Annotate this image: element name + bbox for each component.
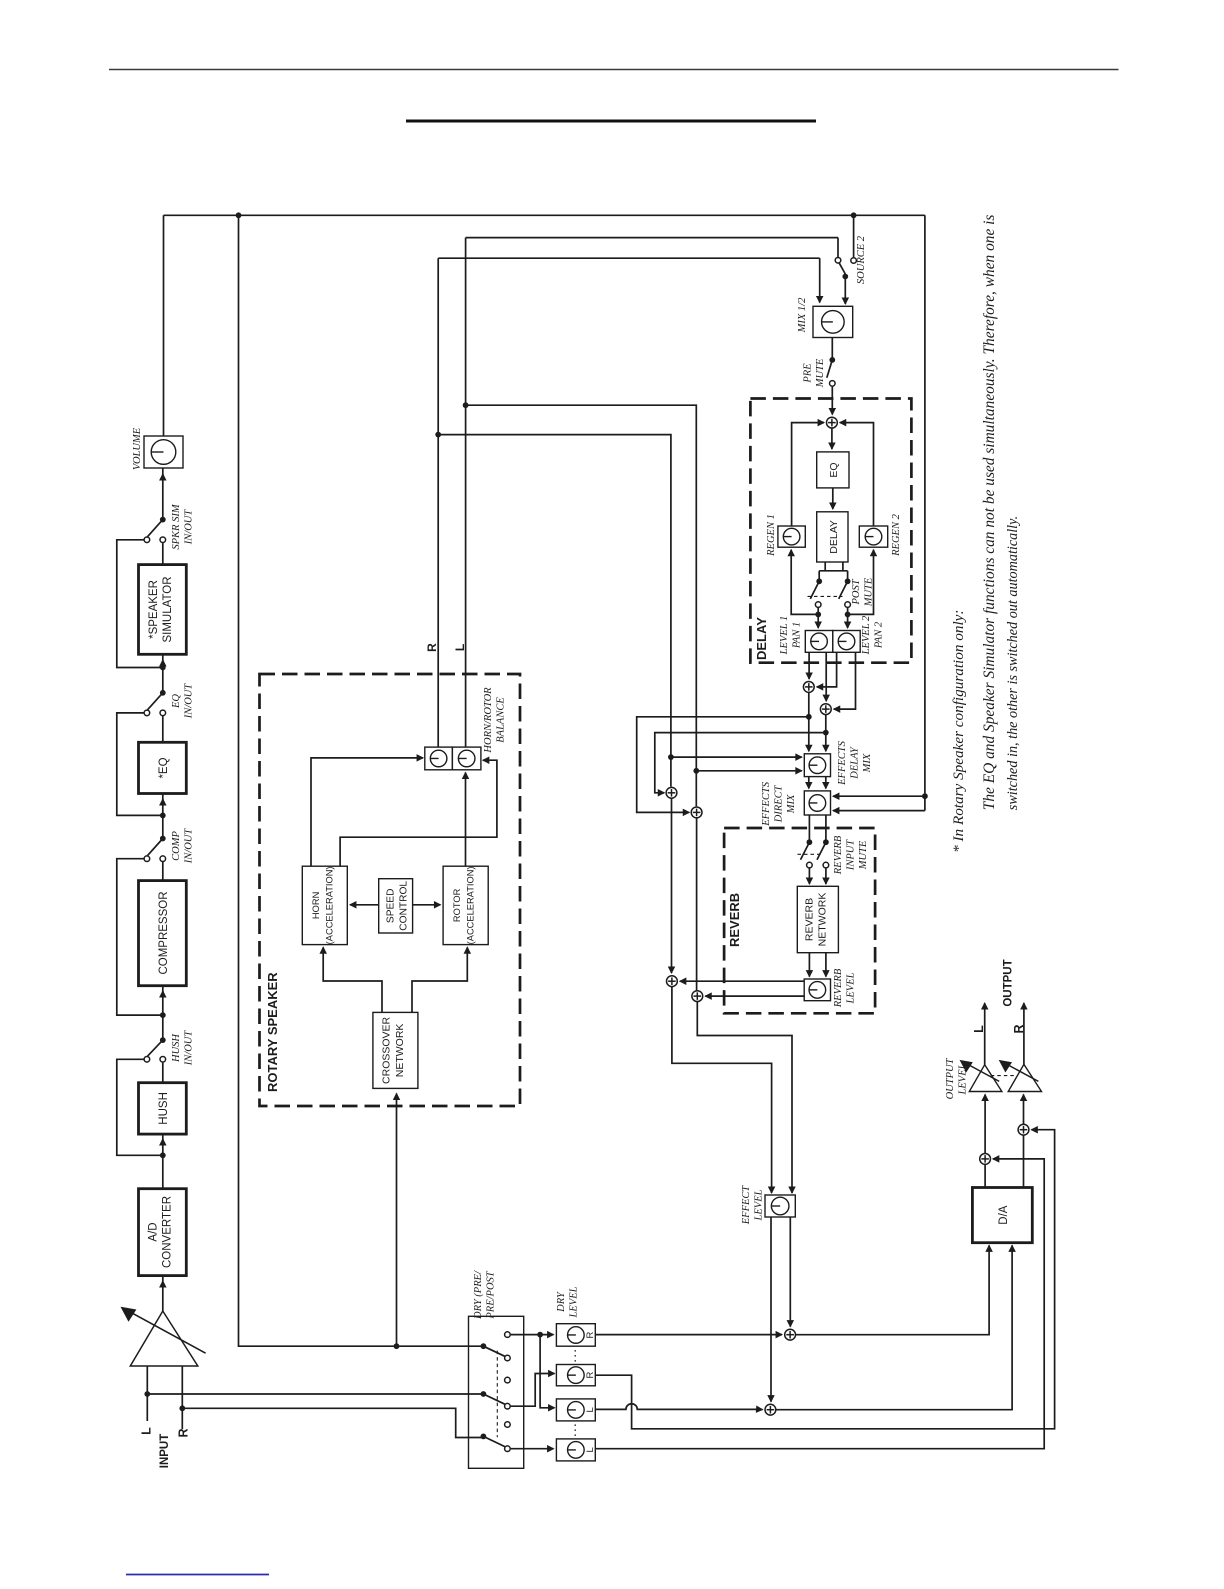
wire R line [466,237,838,239]
node below COMPRESSOR [160,1012,166,1018]
svg-text:EFFECT: EFFECT [741,1185,752,1226]
svg-text:LEVEL: LEVEL [568,1286,579,1318]
svg-text:MUTE: MUTE [815,358,826,388]
VOLUME knob [144,436,183,468]
svg-text:LEVEL 1: LEVEL 1 [779,616,790,656]
svg-text:R: R [585,1331,596,1338]
direct feed wire [924,215,926,810]
svg-text:COMPRESSOR: COMPRESSOR [158,891,170,974]
wire mix link L [808,777,810,789]
wire rotary R into mix [668,754,674,760]
input jack R [181,1366,183,1429]
wire reverb out L [808,953,810,977]
svg-text:MIX: MIX [862,753,873,773]
wire to COMPRESSOR [162,991,164,1015]
svg-text:MUTE: MUTE [858,840,869,870]
wire reverb level to L sum [680,980,804,982]
svg-text:EFFECTS: EFFECTS [761,781,772,826]
wire input R to switch [182,1408,483,1437]
svg-text:VOLUME: VOLUME [132,427,143,470]
svg-text:PRE: PRE [803,363,814,384]
svg-text:The EQ and Speaker Simulator f: The EQ and Speaker Simulator functions c… [981,215,998,811]
svg-text:REVERB: REVERB [727,893,742,947]
wire into reverb network L [808,868,810,884]
svg-text:INPUT: INPUT [159,1434,171,1469]
svg-text:IN/OUT: IN/OUT [183,509,194,546]
gang dots R [574,1350,576,1363]
svg-text:* In Rotary Speaker configura: * In Rotary Speaker configuration only: [950,610,967,853]
svg-text:REVERB: REVERB [833,968,844,1008]
speed to rotor arrow [413,904,441,906]
horn tap wire 1 [311,758,422,866]
svg-text:DELAY: DELAY [828,520,840,554]
HUSH bypass wire [117,1059,163,1155]
wire output R [1023,1003,1025,1064]
wire into MIX [819,258,821,302]
dry R sum node [785,1329,796,1340]
wire output L [984,1003,986,1065]
wire effect level out L [770,1217,772,1402]
input amp [130,1311,198,1366]
node top bus left [236,212,242,218]
delay output yoke [824,562,826,571]
svg-text:R: R [1012,1024,1026,1033]
wire L sum to amp [984,1095,986,1154]
node 3 sum [666,787,677,798]
wire reverb level to R sum [705,995,804,997]
COMP in/out switch [162,862,164,881]
svg-text:PAN 2: PAN 2 [873,621,884,649]
wire delay L to out sum [637,717,809,813]
delay EQ block [817,452,849,488]
rotor tap wire [465,773,467,867]
PRE MUTE switch [831,338,833,360]
svg-text:CONTROL: CONTROL [399,881,410,931]
wire dry R1 to sum [595,1334,782,1336]
svg-text:R: R [177,1428,191,1437]
svg-text:L: L [585,1407,596,1412]
svg-text:DRY (PRE/: DRY (PRE/ [473,1270,484,1320]
crossover to rotor wire [412,948,467,1012]
svg-text:A/D: A/D [148,1222,160,1241]
svg-text:NETWORK: NETWORK [394,1024,406,1078]
svg-text:HUSH: HUSH [171,1033,182,1063]
wire dry L1 to sum with hop [595,1404,762,1410]
wire level1 L to node [808,652,810,679]
DRY LEVEL knob L2 [556,1439,595,1461]
wire D/A out R [1023,1135,1025,1187]
LEVEL 2 knob [833,631,860,653]
REGEN 2 feedback wire [848,552,874,615]
svg-text:EQ: EQ [171,694,182,709]
svg-text:HUSH: HUSH [158,1092,170,1125]
MIX 1/2 knob [813,306,853,337]
svg-text:HORN/ROTOR: HORN/ROTOR [483,687,494,754]
node delay R branch [823,730,829,736]
svg-text:switched in, the other is swit: switched in, the other is switched out a… [1005,516,1021,810]
node below EQ [160,813,166,819]
REVERB LEVEL knob [804,979,830,1001]
wire level1 R to node [825,652,827,701]
svg-text:IN/OUT: IN/OUT [183,1030,194,1067]
wire R corner down [837,238,839,257]
node input L [144,1391,150,1397]
wire R down [465,238,467,747]
node crossover branch [394,1343,400,1349]
EQ block [139,742,187,793]
footer link line [126,1574,269,1576]
wire A/D to HUSH node [162,1155,164,1188]
EQ in/out switch [162,716,164,742]
SPKR SIM bypass wire [117,540,163,668]
DRY LEVEL knob L1 [556,1399,595,1421]
svg-text:OUTPUT: OUTPUT [1003,959,1015,1006]
wire dry L2 long [595,1159,1044,1449]
node delay L branch [806,714,812,720]
ROTOR block [443,866,488,944]
output L sum node [980,1154,991,1165]
delay sum node [827,417,838,428]
switch gang line [496,1351,498,1438]
A/D converter [139,1189,187,1276]
svg-text:SIMULATOR: SIMULATOR [162,576,174,642]
switch pole 1 [481,1343,487,1349]
svg-text:(ACCELERATION): (ACCELERATION) [465,866,475,944]
svg-text:L: L [972,1025,986,1033]
node below HUSH [160,1152,166,1158]
wire input L to switch [147,1393,483,1395]
wire to LEVEL 1 [817,614,819,628]
svg-text:PAN 1: PAN 1 [791,622,802,649]
wire L down [437,258,439,747]
DRY LEVEL knob R2 [556,1365,595,1386]
EQ bypass wire [117,713,163,816]
svg-text:L: L [140,1427,154,1435]
SPKR SIM in/out switch [162,543,164,565]
node R branch [463,402,469,408]
svg-text:ROTARY SPEAKER: ROTARY SPEAKER [265,972,280,1092]
wire VOLUME to top bus [163,215,165,436]
COMPRESSOR block [139,881,187,986]
output amp R [1008,1064,1041,1091]
CROSSOVER NETWORK block [373,1012,418,1088]
HORN block [302,866,347,944]
wire level2 L to node [817,652,837,687]
svg-text:HORN: HORN [311,892,321,919]
wire D/A out L [984,1165,986,1188]
header rule [109,69,1119,71]
svg-text:INPUT: INPUT [845,839,856,871]
svg-text:LEVEL 2: LEVEL 2 [861,615,872,655]
switch throws [505,1332,511,1338]
svg-text:L: L [585,1447,596,1452]
svg-text:SPKR SIM: SPKR SIM [171,503,182,549]
wire throw3B to dry level L2 [511,1448,554,1450]
wire R branch to delay path [466,405,697,806]
svg-text:LEVEL: LEVEL [753,1189,764,1221]
wire direct mix out R [825,815,827,842]
delay R sum node [820,704,831,715]
wire mix link R [825,777,827,789]
dry L sum node [765,1404,776,1415]
REGEN 2 knob [859,526,887,547]
svg-text:MIX: MIX [786,794,797,814]
gang dots L [574,1424,576,1437]
svg-text:D/A: D/A [998,1205,1010,1225]
output amp gang [991,1075,1016,1077]
svg-text:R: R [425,643,439,652]
svg-text:DELAY: DELAY [849,746,860,780]
wire dry branch to L1 [540,1335,553,1408]
DRY LEVEL knob R1 [556,1324,595,1347]
wire delay L down [808,693,810,752]
crossover to horn wire [323,948,382,1012]
DELAY block [750,399,911,663]
wire direct into mix 2 [836,810,925,812]
REGEN 1 return wire [792,423,824,526]
node delay out 2 [847,608,849,615]
svg-text:OUTPUT: OUTPUT [945,1057,956,1099]
svg-text:REGEN 2: REGEN 2 [891,513,902,556]
wire node4 down [696,818,698,991]
wire sum to EQ [831,428,833,449]
svg-text:IN/OUT: IN/OUT [183,828,194,865]
REVERB block [724,828,875,1013]
svg-text:EQ: EQ [828,462,840,477]
wire R sum to effect level [697,1002,792,1193]
svg-text:ROTOR: ROTOR [452,888,462,922]
svg-text:SOURCE 2: SOURCE 2 [856,235,867,284]
svg-text:EFFECTS: EFFECTS [837,740,848,785]
svg-text:DELAY: DELAY [754,617,769,660]
reverb R sum node [692,991,703,1002]
svg-text:MIX 1/2: MIX 1/2 [797,297,808,333]
wire to SPEAKER SIMULATOR [162,660,164,668]
reverb L sum node [667,976,678,987]
svg-text:*EQ: *EQ [158,757,170,778]
wire amp to A/D [162,1281,164,1311]
wire delay R to out sum [655,733,826,793]
svg-text:COMP: COMP [171,831,182,861]
node dry R branch [537,1332,543,1338]
wire throw1 to dry level R1 [511,1334,554,1336]
wire to HUSH [162,1139,164,1155]
SPEED CONTROL block [379,879,413,933]
wire R sum to D/A [796,1246,989,1334]
wire into reverb network R [825,868,827,884]
wire L line [438,257,820,259]
wire L branch to delay path [438,435,671,787]
SPEAKER SIMULATOR block [139,565,187,655]
svg-text:CONVERTER: CONVERTER [162,1196,174,1268]
top bus wire [164,214,925,216]
node top bus right [851,212,857,218]
input amp gain arrow [128,1311,206,1353]
wire L sum to effect level [672,987,772,1193]
REGEN 1 knob [778,526,805,547]
node below SPEAKER SIMULATOR [160,665,166,671]
horn tap wire 2 [340,760,497,866]
node L branch [435,432,441,438]
LEVEL 1 knob [805,631,833,653]
DRY PRE/POST switch box [469,1316,524,1468]
wire throw2B to dry level R2 [511,1374,554,1407]
HORN/ROTOR BALANCE knob R [452,747,481,770]
ROTARY SPEAKER block [260,674,521,1106]
svg-text:BALANCE: BALANCE [495,697,506,743]
wire rotary L into mix [693,768,699,774]
svg-text:R: R [585,1371,596,1378]
SOURCE 2 switch [853,215,855,257]
node input R [179,1405,185,1411]
input jack L [146,1366,148,1421]
svg-text:DIRECT: DIRECT [773,784,784,823]
wire to LEVEL 2 [847,614,849,628]
EFFECTS DELAY MIX knob [804,754,830,777]
svg-text:REVERB: REVERB [833,835,844,875]
D/A converter [972,1188,1032,1243]
switch pole 2 [481,1391,487,1397]
svg-text:CROSSOVER: CROSSOVER [381,1016,393,1084]
POST MUTE switch [816,578,822,584]
svg-text:DRY: DRY [556,1291,567,1313]
delay line block [817,512,848,562]
wire level2 R to node [834,652,856,709]
output amp L [969,1065,1002,1092]
HUSH in/out switch [162,1063,164,1083]
node direct feed [922,793,928,799]
switch pole 3 [481,1434,487,1440]
EFFECT LEVEL knob [765,1195,795,1217]
svg-text:LEVEL: LEVEL [845,972,856,1004]
wire direct mix out L [808,815,810,842]
svg-text:REVERB: REVERB [804,898,816,941]
wire delay R down [825,715,827,752]
wire L sum to D/A [776,1246,1012,1409]
node 4 sum [691,807,702,818]
REVERB NETWORK block [797,886,838,952]
HORN/ROTOR BALANCE knob L [425,747,453,770]
HUSH block [139,1083,187,1134]
wire dry feed down [239,215,484,1346]
EFFECTS DIRECT MIX knob [804,791,830,815]
wire reverb out R [825,953,827,977]
svg-text:*SPEAKER: *SPEAKER [148,580,160,639]
COMPRESSOR bypass wire [117,859,163,1015]
svg-text:POST: POST [851,578,862,605]
REGEN 1 feedback wire [791,552,818,615]
svg-text:SPEED: SPEED [386,889,397,924]
title underline [406,120,816,123]
REGEN 2 return wire [840,423,873,526]
svg-text:PRE/POST: PRE/POST [485,1270,496,1319]
svg-text:LEVEL: LEVEL [957,1063,968,1095]
svg-text:REGEN 1: REGEN 1 [766,514,777,557]
wire dry R2 long [595,1130,1054,1429]
svg-text:IN/OUT: IN/OUT [183,683,194,720]
svg-text:(ACCELERATION): (ACCELERATION) [325,866,335,944]
output R sum node [1018,1124,1029,1135]
REVERB INPUT MUTE switch [807,839,813,845]
wire to EQ [162,799,164,815]
speed to horn arrow [350,904,379,906]
wire effect level out R [789,1217,791,1327]
node delay out 1 [817,608,819,615]
wire direct into mix 1 [833,795,925,797]
svg-text:NETWORK: NETWORK [817,893,829,947]
delay L sum node [803,682,814,693]
wire to crossover network [396,1094,398,1347]
wire R sum to amp [1023,1095,1025,1125]
svg-text:L: L [453,644,467,651]
wire node3 down [671,798,673,973]
wire EQ to delay line [832,488,834,509]
